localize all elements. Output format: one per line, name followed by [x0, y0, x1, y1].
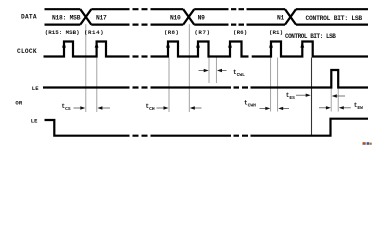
- svg-text:(R14): (R14): [84, 29, 104, 36]
- svg-text:LE: LE: [31, 117, 38, 124]
- svg-text:N18: MSB: N18: MSB: [52, 14, 81, 21]
- svg-text:CLOCK: CLOCK: [17, 48, 37, 55]
- svg-text:N1: N1: [277, 15, 285, 22]
- svg-text:N17: N17: [96, 15, 107, 22]
- svg-text:(R15: MSB): (R15: MSB): [45, 29, 80, 36]
- svg-text:DATA: DATA: [21, 13, 37, 20]
- svg-text:(R6): (R6): [233, 29, 247, 36]
- svg-text:LE: LE: [32, 85, 39, 92]
- svg-text:(R7): (R7): [194, 29, 210, 36]
- svg-text:OR: OR: [15, 99, 22, 106]
- svg-text:CONTROL BIT: LSB: CONTROL BIT: LSB: [306, 15, 363, 22]
- svg-text:N10: N10: [170, 15, 181, 22]
- svg-text:(R1): (R1): [269, 29, 283, 36]
- svg-text:(R8): (R8): [164, 29, 179, 36]
- svg-text:CONTROL BIT: LSB: CONTROL BIT: LSB: [285, 33, 336, 40]
- svg-text:N9: N9: [198, 15, 206, 22]
